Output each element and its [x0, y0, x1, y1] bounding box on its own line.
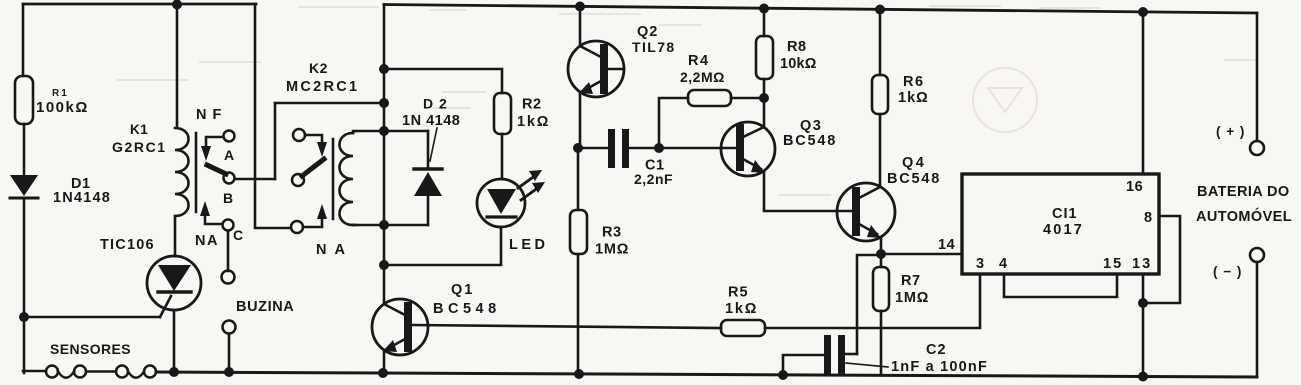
- svg-text:R5: R5: [728, 285, 749, 301]
- svg-text:13: 13: [1132, 256, 1152, 272]
- svg-text:NF: NF: [196, 107, 227, 123]
- contact K1 NF bent lead with arrow: [201, 137, 223, 161]
- wire CI1 pin8 loop to pin13: [1143, 216, 1180, 303]
- wire contact C to buzina terminal: [227, 231, 230, 271]
- contact K2 movable arm: [302, 159, 324, 176]
- wire LED cathode down and left to Q1 collector node: [384, 227, 501, 265]
- svg-text:4017: 4017: [1043, 222, 1084, 238]
- node C1 left junction: [573, 143, 583, 153]
- node R8 top on rail: [759, 4, 769, 14]
- wire K1 coil bottom to SCR anode: [174, 216, 177, 256]
- wire CI1 pin16 to top rail: [1142, 12, 1145, 174]
- svg-text:BC548: BC548: [783, 133, 837, 149]
- svg-text:Q4: Q4: [902, 155, 926, 171]
- node R3 bottom on rail: [574, 369, 584, 379]
- wire riser up from B: [274, 103, 277, 179]
- transistor Q3 BC548: [721, 122, 775, 176]
- contact K1 arm pivot B: [224, 173, 235, 184]
- svg-text:R3: R3: [602, 225, 622, 241]
- svg-text:G2RC1: G2RC1: [112, 139, 167, 155]
- wire K2 coil top stub: [353, 131, 356, 133]
- relay coil K1: [175, 128, 189, 216]
- relay coil K2: [340, 133, 354, 225]
- contact K2 NA lead with up arrow: [303, 204, 327, 227]
- node Q4 emitter junction: [876, 249, 886, 259]
- svg-text:R8: R8: [787, 39, 807, 55]
- IC CI1 4017: [962, 174, 1159, 274]
- contact K1 NA lead with up arrow: [200, 201, 222, 224]
- wire D2 top lead: [427, 131, 430, 168]
- svg-text:Q2: Q2: [637, 24, 658, 40]
- wire R6 top to rail: [879, 10, 882, 76]
- node R4 R8 Q3 collector junction: [759, 93, 769, 103]
- wire R6 bottom to Q4 collector: [879, 114, 882, 187]
- svg-text:15: 15: [1103, 256, 1123, 272]
- wire C1 right plate to base node: [629, 147, 659, 150]
- svg-text:K1: K1: [130, 122, 148, 137]
- wire B net over to main vertical: [275, 102, 384, 105]
- wire R7 top lead: [880, 254, 883, 267]
- svg-text:BUZINA: BUZINA: [236, 299, 294, 315]
- resistor R6: [872, 75, 888, 114]
- terminal buzina lower: [223, 321, 236, 334]
- terminal battery plus: [1250, 141, 1264, 155]
- wire D2 label leader: [430, 128, 437, 161]
- wire Q2 emitter down to C1 node: [579, 92, 582, 148]
- wire gate diagonal to SCR: [160, 296, 171, 317]
- contact K2 NF terminal: [293, 129, 305, 141]
- svg-text:Q1: Q1: [451, 282, 474, 298]
- svg-text:1kΩ: 1kΩ: [898, 90, 929, 106]
- svg-text:SENSORES: SENSORES: [50, 341, 131, 357]
- wire R2 bottom to LED: [501, 134, 504, 179]
- wire R1 bottom to D1: [23, 124, 26, 175]
- svg-text:R1: R1: [52, 88, 69, 99]
- wire C2 left plate to rail: [783, 355, 824, 375]
- svg-text:1kΩ: 1kΩ: [725, 301, 758, 317]
- svg-text:K2: K2: [309, 60, 328, 76]
- wire K2 coil and D2 bottom link: [353, 224, 428, 227]
- svg-text:( − ): ( − ): [1213, 264, 1242, 279]
- wire Q3 base lead: [659, 147, 736, 150]
- svg-text:100kΩ: 100kΩ: [36, 99, 89, 116]
- diode D1: [10, 175, 38, 198]
- contact K2 NF bent lead with arrow: [305, 135, 327, 157]
- capacitor C1: [608, 129, 629, 168]
- svg-text:R4: R4: [688, 53, 710, 69]
- wire R4 right to collector node: [731, 97, 764, 100]
- wire R3 bottom to rail: [577, 254, 580, 374]
- resistor R4: [688, 90, 731, 106]
- wire buzina lower terminal drop: [228, 334, 231, 372]
- node gate junction: [19, 312, 29, 322]
- transistor Q4 BC548: [837, 183, 895, 241]
- node main vertical at y131: [379, 126, 389, 136]
- svg-text:A: A: [224, 147, 234, 163]
- node pin13 on bottom rail: [1138, 372, 1148, 382]
- SCR TIC106: [147, 256, 201, 310]
- wire top rail left segment: [23, 3, 256, 6]
- node SCR cathode on bottom rail: [169, 367, 179, 377]
- svg-text:R2: R2: [522, 97, 542, 113]
- svg-text:R6: R6: [903, 74, 925, 90]
- transistor Q2 TIL78: [568, 41, 624, 97]
- wire bottom rail sensor lead-in: [23, 370, 46, 373]
- svg-text:14: 14: [938, 237, 955, 253]
- node C1 right junction: [654, 143, 664, 153]
- wire node to pin14 of CI1: [881, 253, 962, 256]
- wire Q1 emitter to bottom rail: [383, 351, 386, 373]
- wire R3 top lead: [577, 148, 580, 210]
- wire C2 label leader: [846, 363, 888, 367]
- resistor R7: [873, 267, 889, 311]
- svg-text:1MΩ: 1MΩ: [595, 242, 629, 258]
- wire K2 coil bottom stub: [353, 224, 356, 227]
- wire bottom rail: [156, 372, 1257, 377]
- svg-text:B: B: [223, 190, 233, 206]
- svg-text:R7: R7: [901, 273, 921, 289]
- svg-text:AUTOMÓVEL: AUTOMÓVEL: [1196, 207, 1292, 225]
- wire R8 top to rail: [763, 9, 766, 37]
- svg-text:1N 4148: 1N 4148: [402, 113, 460, 129]
- wire sensor mid link: [86, 370, 116, 373]
- svg-text:NA: NA: [316, 242, 353, 258]
- svg-text:BC548: BC548: [887, 171, 941, 187]
- wire Q3 emitter down and right to Q4 base: [764, 171, 853, 211]
- wire CI1 pin4 to pin15 loop: [1004, 274, 1117, 297]
- relay K1 core bar: [195, 133, 198, 212]
- wire Q1 base run to R5: [413, 325, 721, 328]
- wire C2 right plate lead: [844, 353, 857, 356]
- svg-text:1MΩ: 1MΩ: [895, 290, 929, 306]
- node main vertical at y69: [379, 64, 389, 74]
- wire top rail right segment: [384, 5, 1257, 14]
- svg-text:LED: LED: [509, 237, 549, 253]
- svg-text:C: C: [233, 227, 243, 243]
- wire gate node down to bottom left corner: [23, 317, 26, 373]
- contact K2 arm pivot: [292, 174, 304, 186]
- node Q2 collector on top rail: [575, 2, 585, 12]
- node pin13 pin8 junction: [1138, 298, 1148, 308]
- wire top rail drop at x256 to K2 NA contact: [255, 4, 291, 228]
- svg-text:2,2nF: 2,2nF: [634, 171, 673, 187]
- wire Q4 emitter to node: [880, 237, 883, 254]
- wire left supply drop to R1: [22, 4, 25, 76]
- svg-text:BATERIA DO: BATERIA DO: [1197, 184, 1290, 200]
- node Q1 emitter on bottom rail: [378, 368, 388, 378]
- svg-text:MC2RC1: MC2RC1: [286, 79, 359, 95]
- terminal battery minus: [1250, 248, 1264, 262]
- svg-text:3: 3: [976, 256, 984, 272]
- node main vertical at y103: [379, 98, 389, 108]
- wire battery minus drop: [1256, 262, 1259, 377]
- resistor R8: [756, 36, 773, 79]
- svg-text:TIL78: TIL78: [632, 39, 676, 55]
- svg-text:4: 4: [999, 256, 1007, 272]
- wire base node up to R4: [659, 98, 688, 148]
- wire battery plus drop: [1256, 13, 1259, 141]
- wire K2 coil and D2 top link: [353, 130, 428, 133]
- svg-text:C2: C2: [926, 342, 947, 358]
- terminal buzina upper: [222, 271, 235, 284]
- contact K1 NA terminal C: [223, 220, 234, 231]
- capacitor C2: [824, 335, 845, 375]
- node pin16 on top rail: [1138, 7, 1148, 17]
- svg-text:8: 8: [1144, 210, 1152, 226]
- wire gate horizontal run: [24, 316, 160, 319]
- svg-text:1nF a 100nF: 1nF a 100nF: [891, 359, 988, 375]
- relay K2 core bar: [332, 139, 335, 219]
- svg-text:10kΩ: 10kΩ: [780, 56, 817, 72]
- contact K1 movable arm: [207, 165, 226, 174]
- wire SCR cathode to bottom rail: [173, 310, 176, 372]
- wire CI1 pin13 down to rail: [1142, 274, 1145, 377]
- resistor R5: [721, 320, 765, 336]
- wire R8 bottom to node: [763, 79, 766, 98]
- node R6 top on rail: [875, 5, 885, 15]
- svg-text:NA: NA: [195, 233, 219, 249]
- wire main vertical x384: [383, 5, 386, 303]
- node main vertical at y265: [379, 260, 389, 270]
- sensor loop chain SENSORES: [46, 366, 156, 378]
- svg-text:BC548: BC548: [433, 301, 501, 317]
- wire R5 right to pin3 riser: [765, 274, 980, 328]
- svg-text:16: 16: [1126, 179, 1143, 195]
- svg-text:TIC106: TIC106: [100, 237, 155, 253]
- wire node left and down to C2 right plate: [857, 255, 881, 354]
- wire D1 cathode down to gate node: [23, 200, 26, 317]
- resistor R1: [15, 76, 33, 124]
- node buzina terminal on rail: [224, 367, 234, 377]
- svg-text:( + ): ( + ): [1216, 124, 1245, 139]
- svg-text:2,2MΩ: 2,2MΩ: [680, 69, 725, 85]
- svg-text:D 2: D 2: [423, 96, 448, 112]
- wire K1 coil feed from top rail: [176, 4, 179, 128]
- contact K2 NA terminal: [291, 221, 303, 233]
- wire D2 bottom lead: [427, 196, 430, 225]
- wire Q2 collector to top rail: [579, 7, 582, 47]
- transistor Q1 BC548: [372, 299, 428, 355]
- contact K1 NF terminal A: [224, 131, 235, 142]
- wire R7 bottom to rail: [880, 311, 883, 376]
- svg-text:CI1: CI1: [1052, 206, 1078, 222]
- node main vertical at y225: [379, 220, 389, 230]
- wire R2 feed from main vertical: [384, 69, 502, 93]
- wire C1 left plate lead: [578, 147, 608, 150]
- resistor R2: [494, 93, 511, 134]
- wire K1 arm B to riser: [235, 178, 275, 181]
- LED indicator: [477, 170, 545, 227]
- diode D2: [414, 169, 442, 196]
- resistor R3: [570, 210, 587, 254]
- svg-text:Q3: Q3: [800, 118, 822, 134]
- svg-text:1N4148: 1N4148: [53, 190, 111, 206]
- wire Q3 collector up: [763, 98, 766, 127]
- svg-text:1kΩ: 1kΩ: [517, 114, 550, 130]
- node C2 left on rail: [778, 370, 788, 380]
- node top rail K1 junction: [172, 0, 182, 10]
